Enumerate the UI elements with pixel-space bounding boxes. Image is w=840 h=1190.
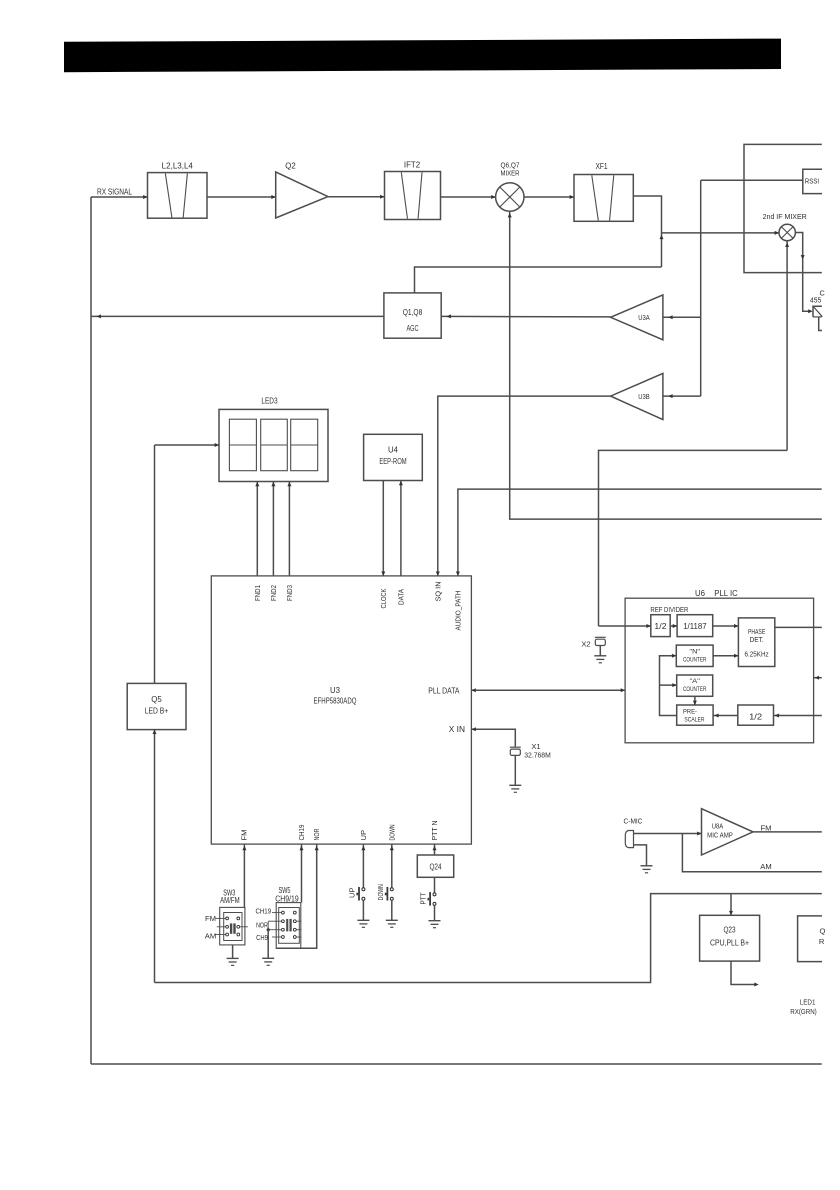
svg-text:U3B: U3B [638, 392, 650, 401]
wire U3B input stub [663, 395, 701, 397]
block N COUNTER [676, 645, 713, 666]
wire mixer to XF1 [524, 196, 574, 198]
svg-text:2nd IF MIXER: 2nd IF MIXER [763, 212, 807, 221]
wire X1 to ground [514, 755, 516, 785]
wire counter feedback bus [660, 656, 677, 716]
wire mic to U8A [634, 833, 702, 835]
wire CLOCK [382, 481, 384, 576]
svg-text:1/2: 1/2 [654, 622, 666, 631]
svg-text:U6: U6 [695, 589, 706, 598]
wire FM pin to SW3 [243, 844, 245, 907]
block RSSI (cut at page edge) [803, 169, 822, 193]
wire vertical bus to U3A/U3B [700, 180, 702, 396]
switch DOWN pushbutton [390, 888, 393, 891]
svg-text:U4: U4 [388, 445, 399, 454]
svg-text:C-MIC: C-MIC [624, 817, 643, 826]
svg-text:X IN: X IN [449, 725, 466, 734]
svg-text:NOR: NOR [312, 828, 321, 840]
svg-text:COUNTER: COUNTER [683, 656, 706, 663]
wire AGC output to left bus [91, 315, 384, 317]
switch UP pushbutton [362, 888, 365, 891]
svg-text:X2: X2 [581, 640, 590, 649]
svg-text:U8A: U8A [712, 821, 724, 830]
svg-text:DOWN: DOWN [376, 884, 385, 900]
wire LED3 input from Q5 bus [155, 444, 220, 446]
svg-text:XF1: XF1 [595, 162, 607, 171]
wire bottom outer horizontal y=1064 [91, 1063, 822, 1065]
wire phase det output (cut at page edge) [775, 626, 822, 628]
svg-text:COUNTER: COUNTER [683, 686, 706, 693]
svg-text:NOR: NOR [256, 921, 268, 930]
svg-text:MIXER: MIXER [501, 168, 520, 177]
ground below SW3 [227, 957, 239, 959]
wire AM branch from mic line [682, 834, 821, 872]
svg-text:REF DIVIDER: REF DIVIDER [650, 607, 688, 614]
amplifier Q2 [276, 172, 328, 218]
svg-text:1/1187: 1/1187 [683, 622, 706, 631]
divider 1/2 (vco) [738, 705, 774, 725]
svg-text:RSSI: RSSI [805, 179, 819, 186]
wire mic to ground [634, 845, 647, 866]
ground below X2 [594, 655, 606, 657]
svg-text:RX SIGNAL: RX SIGNAL [97, 187, 133, 196]
wire X IN to crystal X1 [471, 729, 515, 746]
svg-text:PLL IC: PLL IC [714, 589, 738, 598]
svg-text:LED3: LED3 [261, 397, 278, 406]
ground below UP [357, 919, 369, 921]
svg-text:Q23: Q23 [723, 926, 736, 935]
svg-text:Q24: Q24 [429, 863, 442, 872]
wire IFT2 to mixer Q6,Q7 [441, 196, 496, 198]
svg-text:AGC: AGC [406, 324, 418, 333]
svg-text:CH19: CH19 [255, 907, 271, 916]
wire 1/2 to pre-scaler [713, 715, 738, 717]
filter IFT2 [385, 172, 441, 220]
wire 2nd IF mixer LO vertical [786, 241, 788, 451]
wire Q6,Q7 mixer LO net [510, 211, 822, 519]
wire 2nd IF mixer output to CF filter [795, 233, 811, 312]
svg-text:PHASE: PHASE [748, 629, 766, 636]
svg-text:U3: U3 [330, 686, 341, 695]
wire XF1 output to junction [633, 196, 661, 267]
svg-text:EEP-ROM: EEP-ROM [379, 457, 406, 466]
svg-text:32.768M: 32.768M [524, 751, 551, 760]
wire NOR pin around SW5 [276, 844, 317, 948]
svg-text:CLOCK: CLOCK [379, 589, 388, 609]
svg-text:PTT: PTT [419, 892, 428, 904]
wire SW3 to ground [232, 945, 234, 959]
svg-text:CH9: CH9 [256, 933, 268, 942]
op-amp U8A MIC AMP [702, 809, 754, 855]
wire U3A input stub [663, 316, 701, 318]
wire FND2 [272, 482, 274, 576]
ground below mic [641, 865, 653, 867]
svg-text:MIC AMP: MIC AMP [707, 831, 733, 840]
wire FND1 [256, 482, 258, 576]
divider 1/1187 [677, 615, 713, 637]
svg-text:AM/FM: AM/FM [220, 896, 240, 905]
svg-text:CH19: CH19 [297, 825, 306, 841]
svg-text:UP: UP [359, 830, 368, 841]
svg-text:CPU,PLL B+: CPU,PLL B+ [710, 938, 749, 947]
svg-text:FM: FM [761, 823, 772, 832]
mixer Q6,Q7 MIXER [496, 183, 524, 211]
svg-text:1/2: 1/2 [749, 711, 762, 721]
svg-text:Q1,Q8: Q1,Q8 [403, 308, 423, 317]
wire FM output (cut at page edge) [753, 831, 822, 833]
svg-text:CH9/19: CH9/19 [275, 894, 298, 903]
wire DOWN pin to switch [391, 844, 393, 888]
wire Q24 to PTT switch [434, 877, 436, 893]
block PRE-SCALER [677, 705, 713, 725]
wire vertical Q5/LED bus x=154.5 [154, 445, 156, 683]
svg-text:"N": "N" [690, 648, 701, 655]
wire Q23 output to LED1 [731, 961, 757, 984]
ground below PTT [429, 920, 441, 922]
wire NOR junction to ground [267, 921, 269, 930]
wire X2 branch from 2nd IF LO [599, 450, 788, 626]
svg-text:EFHP5830ADQ: EFHP5830ADQ [314, 697, 357, 706]
wire RSSI input [701, 179, 803, 181]
transistor block Q23 CPU,PLL B+ [700, 915, 760, 961]
block Q1,Q8 AGC [384, 293, 441, 338]
wire U3B output to SQ IN [438, 396, 611, 576]
wire DATA [400, 481, 402, 576]
svg-text:6.25KHz: 6.25KHz [745, 651, 770, 658]
wire 1/1187 to phase det [713, 625, 739, 627]
wire AUDIO_PATH net [458, 489, 822, 576]
op-amp U3B [611, 373, 663, 419]
svg-text:"A": "A" [690, 678, 701, 685]
ground below X1 [509, 784, 521, 786]
svg-text:IFT2: IFT2 [404, 161, 420, 170]
svg-text:UP: UP [348, 887, 357, 898]
block 2nd IF section box (cut at page edge) [744, 144, 822, 272]
wire X2 osc into U6 [599, 625, 651, 627]
svg-text:DATA: DATA [396, 588, 405, 605]
wire vco input to 1/2 (cut at page edge) [774, 715, 822, 717]
wire PTT N pin to Q24 [434, 844, 436, 855]
wire drop to Q23 [730, 894, 732, 916]
wire FND3 [288, 482, 290, 576]
svg-text:AM: AM [760, 862, 771, 871]
filter L2,L3,L4 [148, 173, 208, 219]
svg-text:PTT N: PTT N [430, 821, 439, 841]
svg-text:PLL DATA: PLL DATA [428, 686, 460, 695]
svg-text:U3A: U3A [638, 313, 650, 322]
svg-text:FM: FM [205, 914, 216, 923]
svg-text:LED1: LED1 [800, 997, 816, 1006]
svg-text:L2,L3,L4: L2,L3,L4 [162, 161, 194, 170]
svg-text:455: 455 [810, 296, 821, 305]
block PHASE DET 6.25KHz [738, 618, 774, 667]
wire RX SIGNAL input horizontal [91, 196, 148, 198]
svg-text:DOWN: DOWN [387, 825, 396, 841]
transistor block Q5 LED B+ [127, 683, 186, 729]
header title bar (redacted black) [64, 39, 781, 73]
svg-text:Q2: Q2 [285, 161, 295, 170]
svg-text:AM: AM [205, 931, 216, 940]
block cut at page edge (right of Q23) [798, 916, 822, 962]
wire UP pin to switch [362, 844, 364, 888]
ground below DOWN [386, 919, 398, 921]
svg-text:FM: FM [240, 830, 249, 841]
filter XF1 [574, 175, 633, 222]
svg-text:FND1: FND1 [253, 585, 262, 601]
op-amp U3A [611, 295, 663, 340]
svg-text:SCALER: SCALER [684, 717, 704, 724]
wire left vertical main bus x=91 [90, 197, 92, 1064]
wire PLL DATA [471, 689, 625, 691]
transistor block Q24 [417, 855, 453, 877]
svg-text:Q: Q [820, 927, 826, 936]
wire A counter to pre-scaler [694, 696, 696, 705]
divider 1/2 (ref) [651, 615, 670, 637]
crystal X1 32.768M [510, 746, 521, 748]
block U6 PLL IC outline [625, 598, 814, 743]
svg-text:SQ IN: SQ IN [433, 582, 442, 602]
wire AGC top connection [415, 267, 662, 293]
op-amp U3 EFHP5830ADQ main IC [211, 576, 471, 844]
svg-text:PRE-: PRE- [683, 708, 697, 715]
wire Q2 to IFT2 [328, 196, 385, 198]
wire PTT switch to ground [434, 906, 436, 921]
wire L2,L3,L4 to Q2 [207, 196, 276, 198]
svg-text:LED B+: LED B+ [145, 707, 169, 716]
wire junction to 2nd IF mixer [662, 232, 780, 234]
svg-text:FND3: FND3 [285, 585, 294, 601]
svg-text:AUDIO_PATH: AUDIO_PATH [453, 591, 462, 631]
switch PTT pushbutton [433, 893, 436, 896]
wire CH19 pin to SW5 [301, 844, 303, 903]
ground below SW5 [262, 957, 274, 959]
svg-text:RX(GRN): RX(GRN) [790, 1007, 817, 1016]
wire bottom B+ bus [155, 894, 822, 983]
wire UP switch to ground [362, 900, 364, 920]
wire U3A output to AGC [441, 315, 610, 318]
wire DOWN switch to ground [391, 900, 393, 920]
svg-text:R: R [819, 937, 825, 946]
wire 1/2 to 1/1187 [670, 625, 677, 627]
wire into U6 right edge (cut at page edge) [814, 677, 822, 679]
block A COUNTER [677, 675, 713, 696]
node junction NOR [267, 928, 270, 931]
wire N counter to phase det [713, 655, 738, 657]
svg-text:DET.: DET. [749, 637, 763, 644]
block U4 EEP-ROM [364, 434, 423, 480]
svg-text:Q5: Q5 [151, 695, 162, 704]
svg-text:FND2: FND2 [269, 585, 278, 601]
